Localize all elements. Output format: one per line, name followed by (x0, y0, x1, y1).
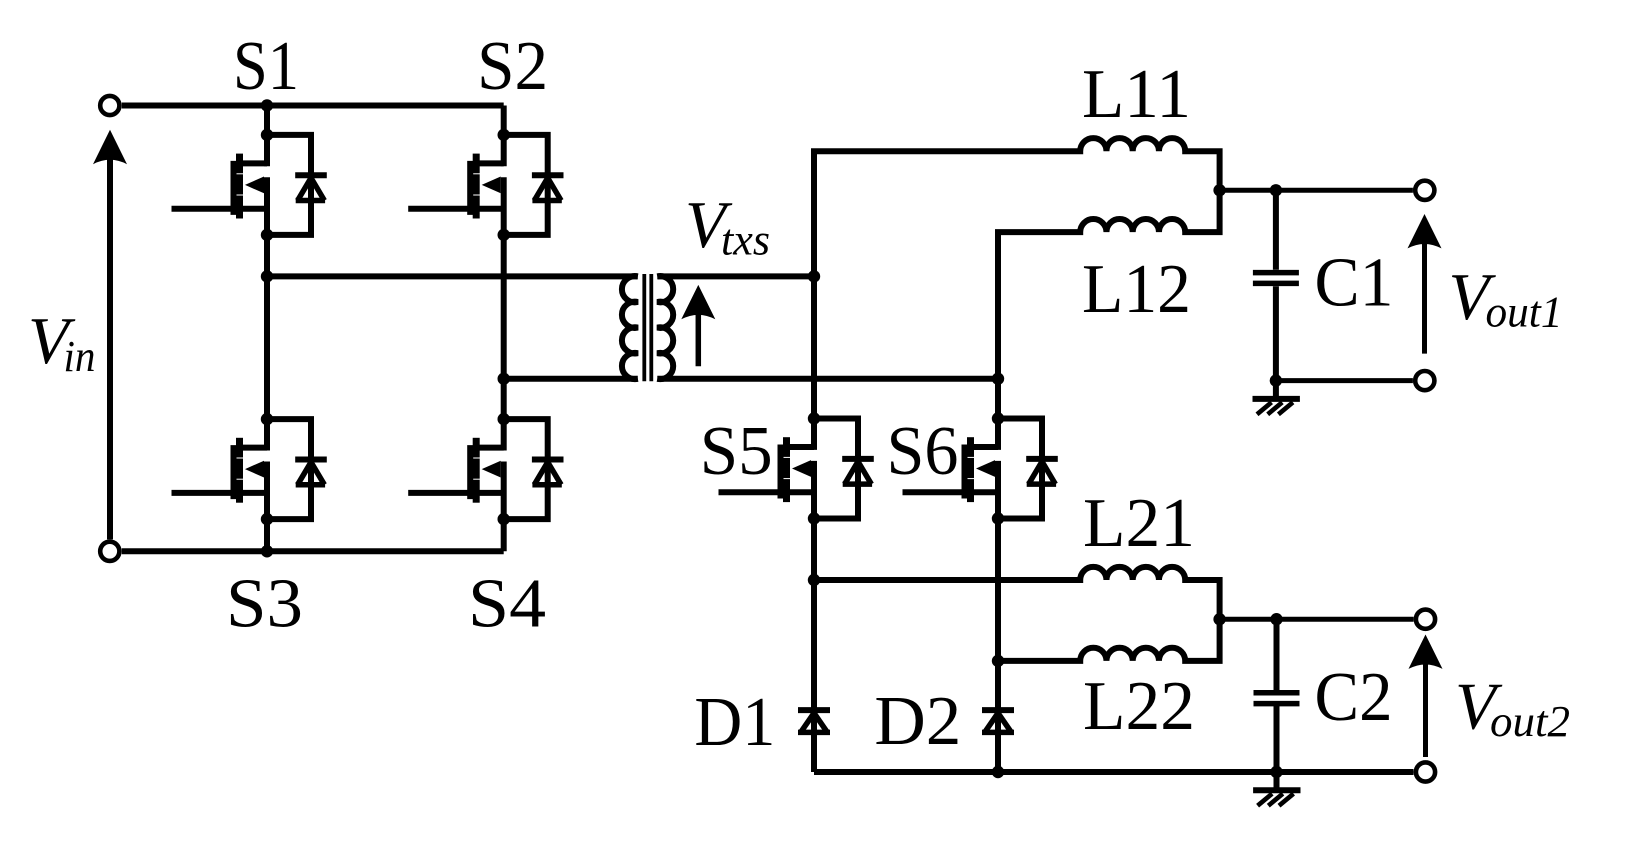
svg-text:S2: S2 (477, 28, 548, 105)
inductor L12 (998, 190, 1220, 378)
wire node B leg (501, 235, 507, 419)
svg-text:C2: C2 (1315, 659, 1393, 736)
node D2 bottom (992, 766, 1004, 778)
wire S1 drain (264, 106, 270, 136)
svg-text:D1: D1 (694, 684, 775, 761)
node C2 top (1270, 613, 1282, 625)
wire S6 leg upper (995, 379, 1001, 419)
wire S6 leg lower (995, 519, 1001, 773)
transistor S4 (408, 413, 563, 525)
node bottom rail / S3 (261, 545, 273, 557)
node L11/L12 junction (1213, 184, 1225, 196)
svg-text:txs: txs (721, 216, 770, 265)
inductor L21 (814, 567, 1220, 619)
wire secondary top (657, 273, 814, 279)
svg-text:D2: D2 (874, 683, 961, 760)
svg-text:in: in (64, 332, 96, 381)
capacitor C2 (1254, 619, 1300, 772)
node C1 bottom (1270, 374, 1282, 386)
input terminal + (100, 96, 119, 115)
wire S2 drain (501, 106, 507, 136)
inductor L11 (814, 138, 1220, 276)
output2 terminal - (1416, 762, 1435, 781)
Vout1 arrow (1408, 214, 1442, 354)
node top rail / S1 (261, 99, 273, 111)
wire S5 leg upper (811, 276, 817, 418)
svg-text:L11: L11 (1082, 56, 1191, 133)
wire output2 bottom rail (814, 769, 1414, 775)
wire primary bottom (504, 376, 638, 382)
svg-text:out1: out1 (1486, 288, 1563, 337)
node A (261, 270, 273, 282)
node L21 tap (808, 574, 820, 586)
svg-text:S3: S3 (226, 566, 303, 643)
output2 terminal + (1416, 610, 1435, 629)
output1 terminal + (1415, 181, 1434, 200)
wire output2 top (1220, 617, 1414, 622)
node secondary bottom / S6 (992, 373, 1004, 385)
input terminal - (100, 542, 119, 561)
transistor S5 (719, 412, 874, 524)
node secondary top (808, 270, 820, 282)
wire S3 source (264, 519, 270, 551)
node C2 bottom (1270, 766, 1282, 778)
svg-text:L21: L21 (1083, 485, 1195, 562)
wire bottom rail (122, 548, 504, 554)
node L22 tap (992, 655, 1004, 667)
wire top rail (122, 103, 504, 109)
node C1 top (1270, 184, 1282, 196)
transistor S1 (172, 129, 327, 241)
diode D1 (798, 710, 830, 732)
svg-text:S6: S6 (887, 413, 959, 490)
capacitor C1 (1253, 190, 1299, 380)
wire output1 bottom (1276, 378, 1413, 383)
svg-text:L22: L22 (1083, 668, 1195, 745)
wire node A leg (264, 235, 270, 419)
node B (498, 373, 510, 385)
svg-text:S4: S4 (468, 566, 546, 643)
transistor S6 (903, 412, 1058, 524)
svg-text:S1: S1 (233, 28, 299, 105)
wire secondary bottom (657, 376, 998, 382)
transformer primary winding (622, 276, 638, 379)
transformer core (644, 274, 651, 381)
wire output1 top (1220, 188, 1413, 193)
inductor L22 (998, 619, 1220, 661)
node L21/L22 junction (1213, 613, 1225, 625)
Vtxs arrow (681, 285, 715, 366)
svg-text:S5: S5 (700, 413, 773, 490)
svg-text:out2: out2 (1490, 697, 1570, 746)
output1 terminal - (1415, 371, 1434, 390)
wire primary top (267, 273, 638, 279)
transformer secondary winding (657, 276, 673, 379)
transistor S2 (408, 129, 563, 241)
ground output2 (1253, 772, 1300, 806)
Vin arrow (93, 130, 127, 540)
wire S4 source (501, 519, 507, 551)
svg-text:C1: C1 (1315, 244, 1394, 321)
diode D2 (982, 710, 1014, 732)
transistor S3 (172, 413, 327, 525)
svg-text:L12: L12 (1082, 251, 1191, 328)
Vout2 arrow (1409, 635, 1443, 758)
ground output1 (1253, 381, 1300, 415)
wire S5 leg lower (811, 519, 817, 773)
